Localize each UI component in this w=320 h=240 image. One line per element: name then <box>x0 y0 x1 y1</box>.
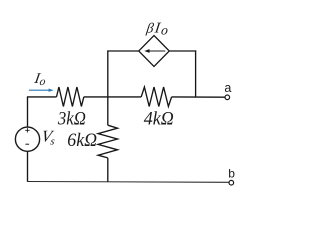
wire mid rail segment (3k to 4k through node) <box>84 96 141 98</box>
voltage source minus sign <box>25 143 29 145</box>
wire rail to terminal a <box>172 96 225 98</box>
svg-text:4kΩ: 4kΩ <box>144 109 174 130</box>
wire top loop left segment <box>108 50 139 52</box>
wire top loop right segment <box>169 50 196 52</box>
terminal b circle <box>229 180 234 185</box>
wire node vertical (top loop corner down to 6k) <box>107 50 109 125</box>
wire bottom rail <box>27 181 229 184</box>
voltage source plus sign <box>25 128 29 132</box>
svg-text:b: b <box>228 166 235 180</box>
svg-text:βIo: βIo <box>144 21 169 38</box>
wire top rail left segment <box>27 96 57 98</box>
wire right vertical (top loop to rail) <box>195 50 197 97</box>
terminal a circle <box>225 95 230 100</box>
svg-text:6kΩ: 6kΩ <box>67 131 97 151</box>
svg-text:3kΩ: 3kΩ <box>57 108 86 129</box>
wire 6k to bottom rail <box>107 158 109 182</box>
resistor 3k zigzag <box>57 87 84 107</box>
wire left vertical top (Vs to top rail) <box>27 97 29 127</box>
current Io arrow (blue) <box>29 89 54 92</box>
svg-text:a: a <box>224 81 231 95</box>
dependent current source diamond U1 <box>139 36 170 67</box>
voltage source Vs circle <box>15 127 39 151</box>
resistor 4k zigzag <box>141 87 171 107</box>
resistor 6k zigzag <box>98 125 117 158</box>
wire left vertical bottom (Vs to bottom rail) <box>27 151 29 181</box>
dependent source arrow (points left) <box>144 49 165 53</box>
